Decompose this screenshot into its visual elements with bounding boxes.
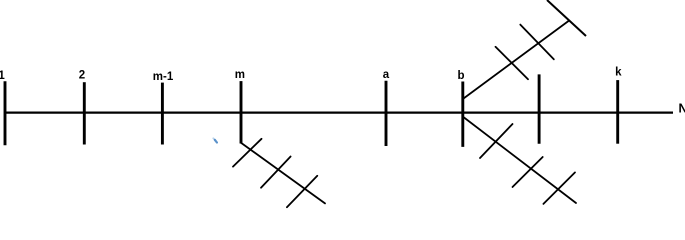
blue cursor mark near bus m (faint tail)	[213, 138, 215, 140]
blue cursor mark near bus m (dark head)	[215, 140, 217, 143]
svg-text:N: N	[679, 101, 685, 115]
tick 2 on b-lower-lateral	[513, 157, 543, 187]
wire: lateral from bus b going down-right	[464, 118, 576, 204]
tick 3 on b-lower-lateral	[543, 172, 575, 204]
svg-text:b: b	[457, 70, 464, 82]
node m: bus bar	[240, 81, 243, 143]
tick 1 on b-upper-lateral	[496, 47, 529, 79]
node m-1: bus bar	[161, 83, 164, 145]
node a: bus bar	[385, 81, 388, 146]
node 2: bus bar	[83, 82, 86, 144]
tick 1 on b-lower-lateral	[480, 124, 513, 158]
node 1: bus bar	[4, 81, 7, 145]
tick 2 on b-upper-lateral	[520, 25, 554, 60]
node b: bus bar	[461, 82, 464, 147]
tick 1 on m-lateral	[233, 139, 262, 167]
tick 3 on m-lateral	[287, 176, 317, 207]
svg-text:m: m	[235, 69, 245, 81]
svg-text:m-1: m-1	[153, 71, 174, 83]
wire: main feeder line 1 to N	[4, 111, 673, 113]
svg-text:a: a	[383, 69, 390, 81]
svg-text:1: 1	[0, 70, 5, 82]
wire: lateral from bus b going up-right	[464, 21, 569, 99]
tick 2 on m-lateral	[261, 157, 291, 188]
unlabeled bus bar between b and k	[538, 74, 541, 143]
svg-text:k: k	[615, 67, 622, 79]
svg-text:2: 2	[79, 70, 85, 82]
terminal bar at end of b-upper-lateral	[547, 0, 586, 36]
wire: lateral from bus m going down-right	[241, 143, 325, 204]
node k: bus bar	[616, 80, 619, 144]
